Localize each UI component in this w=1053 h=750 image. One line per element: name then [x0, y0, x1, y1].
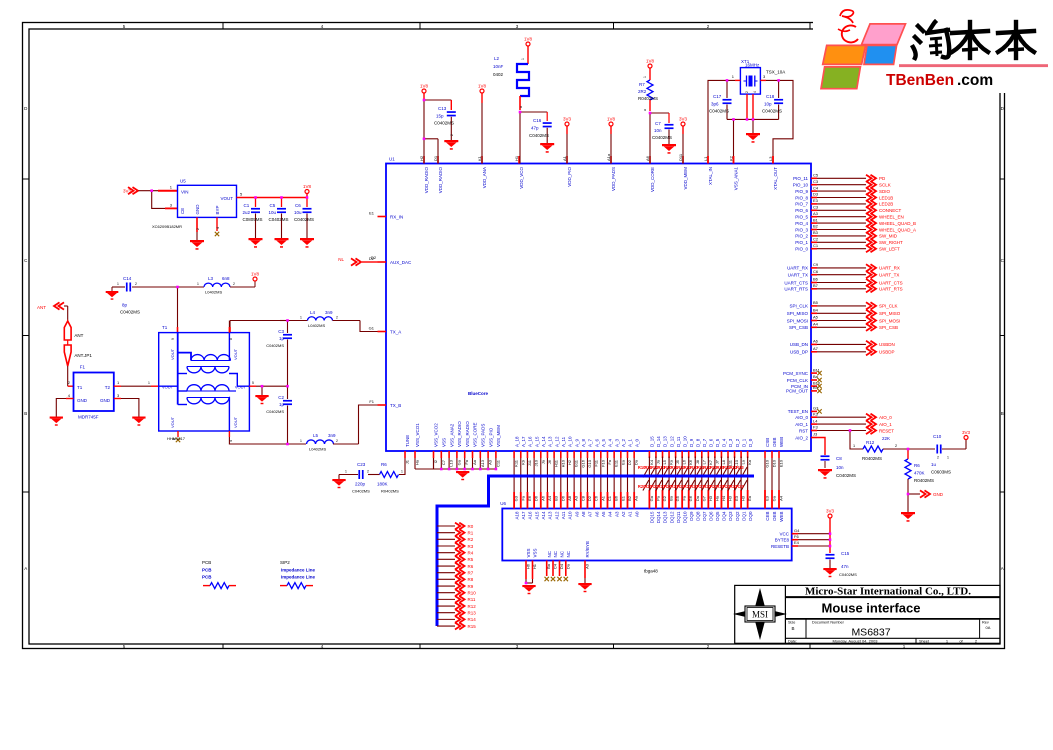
svg-text:SPI_CLK: SPI_CLK — [879, 304, 898, 309]
svg-text:D4: D4 — [559, 563, 564, 569]
svg-text:2u2: 2u2 — [243, 210, 251, 215]
svg-text:G4: G4 — [794, 528, 800, 533]
svg-text:1: 1 — [643, 76, 647, 78]
svg-text:Size: Size — [788, 621, 795, 625]
svg-text:C2: C2 — [278, 395, 284, 400]
svg-text:Document Number: Document Number — [812, 621, 845, 625]
svg-text:C7: C7 — [655, 121, 661, 126]
svg-text:C5: C5 — [270, 203, 276, 208]
svg-text:G3: G3 — [514, 495, 519, 501]
svg-text:R12: R12 — [866, 440, 875, 445]
svg-text:C15: C15 — [841, 551, 850, 556]
svg-text:Fa: Fa — [682, 495, 687, 500]
svg-text:2: 2 — [367, 470, 369, 474]
svg-text:PCM_CLK: PCM_CLK — [787, 378, 808, 383]
svg-text:GND: GND — [100, 398, 111, 403]
svg-text:1: 1 — [401, 470, 403, 474]
svg-text:VOUT: VOUT — [233, 348, 238, 360]
svg-text:VOUT: VOUT — [170, 348, 175, 360]
svg-text:L5: L5 — [313, 433, 319, 438]
svg-text:C8: C8 — [580, 495, 585, 501]
svg-text:C0805MS: C0805MS — [243, 217, 263, 222]
svg-text:E1: E1 — [369, 211, 375, 216]
svg-text:A_9: A_9 — [574, 438, 579, 447]
svg-text:A_0: A_0 — [634, 438, 639, 447]
svg-text:VDD_MEM: VDD_MEM — [683, 167, 688, 190]
svg-text:WHEEL_QUAD_B: WHEEL_QUAD_B — [879, 221, 916, 226]
svg-text:AIO_0: AIO_0 — [879, 415, 892, 420]
svg-text:CEB: CEB — [765, 512, 770, 521]
svg-text:A_6: A_6 — [594, 438, 599, 447]
svg-text:PIO_11: PIO_11 — [793, 176, 808, 181]
svg-text:3V3: 3V3 — [563, 117, 572, 122]
svg-text:B3: B3 — [554, 495, 559, 501]
svg-text:B: B — [791, 626, 794, 631]
svg-text:PCB: PCB — [202, 568, 212, 573]
svg-text:TUNE: TUNE — [405, 435, 410, 447]
svg-text:PCB: PCB — [202, 560, 211, 565]
svg-text:1V8: 1V8 — [646, 59, 655, 64]
svg-text:D_4: D_4 — [722, 438, 727, 447]
svg-text:C0402MS: C0402MS — [269, 217, 289, 222]
svg-text:A8: A8 — [567, 495, 572, 501]
svg-text:A17: A17 — [521, 511, 526, 520]
svg-text:PIO_9: PIO_9 — [795, 189, 808, 194]
svg-text:1V8: 1V8 — [420, 84, 429, 89]
svg-text:A_11: A_11 — [561, 436, 566, 447]
svg-text:1u: 1u — [931, 462, 937, 467]
svg-text:MDR745F: MDR745F — [78, 415, 99, 420]
svg-text:VSS_MEM: VSS_MEM — [496, 425, 501, 447]
svg-text:DQ12: DQ12 — [669, 511, 674, 523]
svg-text:A1: A1 — [628, 511, 633, 517]
svg-text:C1: C1 — [244, 203, 250, 208]
svg-text:C1: C1 — [813, 243, 819, 248]
svg-text:B: B — [24, 411, 27, 416]
svg-text:R12: R12 — [468, 604, 477, 609]
svg-text:H1: H1 — [532, 563, 537, 569]
svg-text:2: 2 — [937, 456, 939, 460]
svg-text:VSS_ANA1: VSS_ANA1 — [734, 167, 739, 191]
svg-text:C17: C17 — [713, 94, 722, 99]
svg-text:SPI_MISO: SPI_MISO — [787, 311, 809, 316]
svg-text:C0402MS: C0402MS — [120, 310, 140, 315]
svg-text:A6: A6 — [813, 339, 819, 344]
svg-text:D_14: D_14 — [656, 436, 661, 447]
svg-text:C3: C3 — [813, 179, 819, 184]
svg-text:C0402MS: C0402MS — [434, 121, 454, 126]
svg-text:D_6: D_6 — [709, 438, 714, 447]
svg-text:OEB: OEB — [772, 512, 777, 522]
svg-text:A: A — [1001, 566, 1004, 571]
svg-text:TBenBen: TBenBen — [886, 72, 954, 89]
svg-text:C0402MS: C0402MS — [529, 133, 549, 138]
svg-text:Aa: Aa — [634, 495, 639, 501]
svg-text:UART_RX: UART_RX — [787, 266, 808, 271]
svg-text:R8: R8 — [468, 577, 474, 582]
svg-text:C2: C2 — [813, 237, 819, 242]
svg-text:R10: R10 — [468, 591, 477, 596]
svg-text:470K: 470K — [914, 471, 925, 476]
svg-text:A1a: A1a — [606, 153, 611, 161]
svg-text:C6: C6 — [813, 269, 819, 274]
svg-text:A7: A7 — [813, 346, 819, 351]
svg-text:G7: G7 — [701, 495, 706, 501]
svg-text:CE: CE — [180, 208, 185, 214]
svg-text:R0402MS: R0402MS — [381, 489, 399, 494]
svg-text:3V3: 3V3 — [826, 509, 835, 514]
svg-text:CONNECT: CONNECT — [879, 208, 902, 213]
svg-text:A_15: A_15 — [534, 436, 539, 447]
svg-text:C0402MS: C0402MS — [762, 109, 782, 114]
svg-text:D_12: D_12 — [669, 436, 674, 447]
svg-text:UART_RTS: UART_RTS — [879, 287, 903, 292]
svg-text:R0402MS: R0402MS — [638, 96, 658, 101]
svg-text:A6: A6 — [594, 511, 599, 517]
svg-text:R7: R7 — [639, 82, 645, 87]
svg-text:A8: A8 — [581, 511, 586, 517]
svg-text:Fa: Fa — [520, 495, 525, 500]
svg-text:1: 1 — [117, 282, 119, 286]
svg-text:RY/BYB: RY/BYB — [585, 541, 590, 557]
svg-text:SPI_CLK: SPI_CLK — [789, 304, 808, 309]
svg-text:VDD_VCO: VDD_VCO — [519, 167, 524, 189]
svg-text:A_14: A_14 — [541, 436, 546, 447]
svg-text:2: 2 — [745, 91, 749, 93]
svg-text:SIP2: SIP2 — [280, 560, 290, 565]
svg-text:a: a — [519, 106, 523, 108]
svg-text:D11: D11 — [678, 153, 683, 161]
svg-text:VIN: VIN — [181, 190, 189, 195]
svg-text:D_10: D_10 — [682, 436, 687, 447]
svg-text:Impedance Line: Impedance Line — [281, 575, 316, 580]
svg-text:G1: G1 — [369, 326, 375, 331]
svg-text:DQ0: DQ0 — [748, 511, 753, 521]
svg-text:PCB: PCB — [202, 575, 212, 580]
svg-text:A9: A9 — [574, 511, 579, 517]
svg-text:Monday, August 04, 2003: Monday, August 04, 2003 — [832, 638, 878, 643]
svg-text:UART_TX: UART_TX — [788, 273, 808, 278]
svg-text:C6: C6 — [295, 203, 301, 208]
svg-text:C0402MS: C0402MS — [266, 343, 284, 348]
svg-text:PCM_OUT: PCM_OUT — [786, 389, 808, 394]
svg-text:8: 8 — [229, 338, 233, 340]
svg-text:3V3: 3V3 — [962, 430, 971, 435]
svg-text:C4: C4 — [813, 185, 819, 190]
svg-text:R6: R6 — [914, 463, 920, 468]
svg-text:AIO_2: AIO_2 — [795, 435, 808, 440]
svg-text:R7: R7 — [468, 570, 474, 575]
svg-text:B4: B4 — [813, 308, 819, 313]
svg-text:1: 1 — [345, 470, 347, 474]
svg-text:Ea: Ea — [747, 495, 752, 501]
svg-text:VSS_ANA2: VSS_ANA2 — [449, 423, 454, 447]
svg-text:USBDP: USBDP — [879, 350, 895, 355]
svg-text:R14: R14 — [468, 617, 477, 622]
svg-text:SPI_MISO: SPI_MISO — [879, 311, 901, 316]
svg-text:VOUT: VOUT — [170, 416, 175, 428]
svg-text:F1: F1 — [80, 365, 86, 370]
svg-text:220p: 220p — [355, 482, 366, 487]
svg-text:F1: F1 — [369, 399, 374, 404]
svg-text:PIO_5: PIO_5 — [795, 215, 808, 220]
svg-text:USB_DN: USB_DN — [790, 342, 808, 347]
svg-text:A3: A3 — [614, 511, 619, 517]
svg-text:G2: G2 — [662, 495, 667, 501]
svg-text:L2: L2 — [494, 56, 500, 61]
svg-text:RST: RST — [799, 428, 808, 433]
svg-text:B11: B11 — [813, 367, 821, 372]
svg-text:C3: C3 — [813, 205, 819, 210]
svg-text:16MHz: 16MHz — [745, 63, 760, 68]
svg-text:DQ11: DQ11 — [676, 511, 681, 523]
svg-text:C23: C23 — [357, 462, 366, 467]
svg-text:NC: NC — [547, 550, 552, 557]
svg-text:a: a — [643, 109, 647, 111]
svg-text:Ha: Ha — [714, 495, 719, 501]
svg-text:R1: R1 — [468, 530, 474, 535]
svg-text:VDD_RADIO: VDD_RADIO — [424, 167, 429, 194]
svg-text:NC: NC — [560, 550, 565, 557]
svg-text:A_8: A_8 — [581, 438, 586, 447]
svg-text:SW_RIGHT: SW_RIGHT — [879, 240, 903, 245]
svg-text:GND: GND — [933, 492, 944, 497]
svg-text:E6: E6 — [527, 495, 532, 501]
svg-text:R13: R13 — [468, 611, 477, 616]
svg-text:A10: A10 — [568, 511, 573, 520]
svg-text:A14: A14 — [541, 511, 546, 520]
svg-text:1: 1 — [853, 444, 855, 448]
svg-text:C0402MS: C0402MS — [709, 109, 729, 114]
svg-text:A_16: A_16 — [528, 436, 533, 447]
svg-text:U5: U5 — [180, 179, 186, 184]
svg-text:F6: F6 — [794, 534, 799, 539]
svg-text:PIO_10: PIO_10 — [793, 183, 809, 188]
svg-text:B: B — [1001, 411, 1004, 416]
svg-text:DQ1: DQ1 — [741, 511, 746, 521]
svg-text:C10: C10 — [933, 434, 942, 439]
svg-text:R2: R2 — [468, 537, 474, 542]
svg-text:A_3: A_3 — [614, 438, 619, 447]
svg-text:A5: A5 — [601, 511, 606, 517]
svg-text:C0402MS: C0402MS — [294, 217, 314, 222]
svg-text:2: 2 — [196, 228, 200, 230]
svg-text:TX_A: TX_A — [390, 329, 401, 334]
svg-text:D6: D6 — [534, 495, 539, 501]
svg-text:C18: C18 — [766, 94, 775, 99]
svg-text:D_13: D_13 — [663, 436, 668, 447]
svg-text:D_3: D_3 — [728, 438, 733, 447]
svg-text:VDD_PADS: VDD_PADS — [611, 167, 616, 191]
svg-text:UART_CTS: UART_CTS — [784, 280, 808, 285]
svg-text:DQ13: DQ13 — [663, 511, 668, 523]
svg-text:A1: A1 — [600, 495, 605, 501]
svg-text:C0603MS: C0603MS — [931, 470, 951, 475]
svg-text:DQ15: DQ15 — [650, 511, 655, 523]
svg-text:MSI: MSI — [752, 610, 768, 620]
svg-text:D3: D3 — [813, 192, 819, 197]
svg-text:2: 2 — [895, 444, 897, 448]
svg-text:D1: D1 — [433, 155, 438, 161]
svg-text:PCM_SYNC: PCM_SYNC — [783, 371, 809, 376]
svg-text:DQ7: DQ7 — [702, 511, 707, 521]
svg-text:A_12: A_12 — [554, 436, 559, 447]
svg-text:C13: C13 — [438, 106, 447, 111]
svg-text:WHEEL_EN: WHEEL_EN — [879, 215, 904, 220]
svg-text:A_2: A_2 — [621, 438, 626, 447]
svg-text:GND: GND — [77, 398, 88, 403]
svg-text:C8: C8 — [836, 456, 842, 461]
svg-text:A18: A18 — [514, 511, 519, 520]
svg-text:LED2B: LED2B — [879, 202, 893, 207]
svg-text:DQ10: DQ10 — [682, 511, 687, 523]
svg-text:B1: B1 — [813, 217, 819, 222]
svg-text:L0402MS: L0402MS — [309, 447, 326, 452]
svg-text:A_13: A_13 — [548, 436, 553, 447]
svg-text:A6: A6 — [645, 155, 650, 161]
svg-text:22K: 22K — [882, 436, 890, 441]
svg-text:3V3: 3V3 — [679, 117, 688, 122]
svg-text:PIO_4: PIO_4 — [795, 221, 808, 226]
svg-text:1: 1 — [300, 439, 302, 443]
svg-text:H1: H1 — [514, 155, 519, 161]
svg-text:SCLK: SCLK — [879, 183, 891, 188]
svg-text:PIO_1: PIO_1 — [795, 240, 808, 245]
svg-text:A1: A1 — [562, 155, 567, 161]
svg-text:UART_RX: UART_RX — [879, 266, 900, 271]
svg-text:VCC: VCC — [779, 532, 789, 537]
svg-text:A0: A0 — [634, 511, 639, 517]
svg-text:0402: 0402 — [493, 72, 504, 77]
svg-text:LED1B: LED1B — [879, 195, 893, 200]
svg-text:SW_LEFT: SW_LEFT — [879, 247, 900, 252]
svg-text:OEB: OEB — [772, 437, 777, 447]
svg-text:R23: R23 — [736, 484, 744, 489]
svg-text:Ga: Ga — [772, 495, 777, 501]
svg-text:DQ14: DQ14 — [656, 511, 661, 523]
svg-text:R6: R6 — [381, 462, 387, 467]
svg-text:VSS_RADIO: VSS_RADIO — [465, 421, 470, 447]
svg-text:XC6209B182MR: XC6209B182MR — [152, 224, 182, 229]
svg-text:A_7: A_7 — [588, 438, 593, 447]
svg-text:1V8: 1V8 — [303, 184, 312, 189]
svg-text:R3: R3 — [468, 544, 474, 549]
svg-text:H6: H6 — [526, 563, 531, 569]
svg-text:VSS: VSS — [533, 548, 538, 557]
svg-text:RESET: RESET — [879, 428, 894, 433]
svg-text:A11: A11 — [561, 511, 566, 519]
svg-text:10u: 10u — [294, 210, 302, 215]
svg-text:H3: H3 — [728, 495, 733, 501]
svg-text:E3: E3 — [765, 495, 770, 501]
svg-text:D_1: D_1 — [741, 438, 746, 447]
svg-text:DQ8: DQ8 — [695, 511, 700, 521]
svg-text:XTAL_OUT: XTAL_OUT — [773, 167, 778, 190]
svg-text:1: 1 — [197, 282, 199, 286]
svg-text:UART_CTS: UART_CTS — [879, 280, 903, 285]
svg-text:3n9: 3n9 — [325, 310, 333, 315]
svg-text:R5: R5 — [468, 557, 474, 562]
svg-text:R0402MS: R0402MS — [862, 456, 882, 461]
svg-text:A16: A16 — [528, 511, 533, 520]
svg-text:10n: 10n — [654, 128, 662, 133]
svg-text:L4: L4 — [310, 310, 316, 315]
svg-text:tbga48: tbga48 — [644, 569, 658, 574]
svg-text:4: 4 — [216, 227, 220, 229]
svg-text:D_8: D_8 — [695, 438, 700, 447]
svg-text:H3: H3 — [708, 495, 713, 501]
svg-text:1: 1 — [521, 58, 525, 60]
svg-text:SPI_CSB: SPI_CSB — [879, 325, 898, 330]
svg-text:3p6: 3p6 — [711, 102, 719, 107]
svg-text:D_15: D_15 — [650, 436, 655, 447]
svg-text:ANT.JP1: ANT.JP1 — [74, 353, 92, 358]
svg-text:AIO_1: AIO_1 — [879, 422, 892, 427]
svg-text:VDD_CORE: VDD_CORE — [650, 167, 655, 192]
svg-text:9: 9 — [171, 338, 175, 340]
svg-text:A3: A3 — [574, 495, 579, 501]
svg-text:E1: E1 — [620, 495, 625, 501]
svg-text:NC: NC — [553, 550, 558, 557]
svg-text:H3: H3 — [741, 495, 746, 501]
svg-text:NL: NL — [338, 257, 344, 262]
svg-text:A7: A7 — [588, 511, 593, 517]
svg-text:PIO_2: PIO_2 — [795, 234, 808, 239]
svg-text:1p: 1p — [279, 402, 285, 407]
svg-text:R4: R4 — [468, 550, 474, 555]
svg-text:K1: K1 — [477, 155, 482, 161]
svg-text:VOUT: VOUT — [162, 385, 174, 390]
svg-text:WEB: WEB — [779, 512, 784, 522]
svg-text:A_18: A_18 — [514, 436, 519, 447]
svg-text:GND: GND — [195, 204, 200, 215]
svg-text:Pa: Pa — [655, 495, 660, 501]
svg-text:A3: A3 — [813, 211, 819, 216]
svg-text:A5: A5 — [813, 315, 819, 320]
svg-text:1V8: 1V8 — [524, 37, 533, 42]
svg-text:A12: A12 — [554, 511, 559, 520]
svg-text:D6: D6 — [560, 495, 565, 501]
svg-text:C14: C14 — [123, 276, 132, 281]
svg-text:6n8: 6n8 — [222, 276, 230, 281]
svg-text:Rev: Rev — [982, 621, 989, 625]
svg-text:C4: C4 — [553, 563, 558, 569]
svg-text:D_7: D_7 — [702, 438, 707, 447]
svg-text:SPI_MOSI: SPI_MOSI — [787, 318, 808, 323]
svg-text:H2: H2 — [419, 155, 424, 161]
svg-text:U1: U1 — [389, 157, 395, 162]
svg-text:TSX_10A: TSX_10A — [766, 70, 785, 75]
svg-text:A_10: A_10 — [568, 436, 573, 447]
svg-text:R9: R9 — [468, 584, 474, 589]
svg-text:RESETB: RESETB — [771, 544, 789, 549]
svg-text:Impedance Line: Impedance Line — [281, 568, 316, 573]
svg-text:ANT: ANT — [74, 333, 83, 338]
svg-text:G5: G5 — [675, 495, 680, 501]
svg-text:A3: A3 — [585, 563, 590, 569]
svg-text:XTAL_IN: XTAL_IN — [708, 167, 713, 185]
svg-text:B6: B6 — [614, 495, 619, 501]
svg-text:Ga: Ga — [649, 495, 654, 501]
svg-text:D_0: D_0 — [748, 438, 753, 447]
svg-text:PIO_8: PIO_8 — [795, 195, 808, 200]
svg-text:VSS_PIO: VSS_PIO — [488, 427, 493, 447]
svg-text:WHEEL_QUAD_A: WHEEL_QUAD_A — [879, 227, 916, 232]
svg-text:DQ2: DQ2 — [735, 511, 740, 521]
svg-text:A4: A4 — [813, 322, 819, 327]
svg-text:L0402MS: L0402MS — [308, 323, 325, 328]
svg-text:2: 2 — [135, 282, 137, 286]
